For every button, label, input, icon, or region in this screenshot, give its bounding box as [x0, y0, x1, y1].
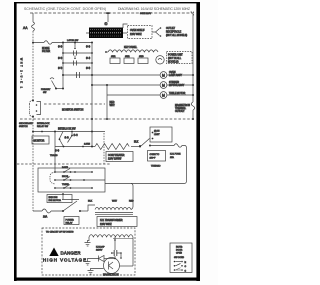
transformer core	[95, 213, 133, 215]
svg-text:SW: SW	[43, 92, 46, 94]
node hook top right	[191, 12, 194, 16]
selector bracket	[50, 172, 55, 184]
svg-text:2100V: 2100V	[96, 250, 103, 252]
wire to thermal fuse	[150, 145, 172, 147]
svg-text:BAKE: BAKE	[62, 166, 68, 169]
wire row y211	[33, 210, 63, 212]
capacitor C1 on row75	[77, 72, 80, 78]
relay coil box	[47, 195, 72, 203]
svg-text:TRANS: TRANS	[50, 154, 58, 157]
wire row y63	[63, 62, 92, 64]
svg-text:MONITOR: MONITOR	[34, 141, 45, 143]
svg-text:(1-2): (1-2)	[65, 137, 70, 139]
svg-text:PRIMARY: PRIMARY	[41, 88, 51, 91]
wire right lead into magnetron	[120, 265, 134, 267]
node 107,119	[106, 118, 108, 120]
control unit box (dashed)	[167, 52, 193, 64]
svg-text:120V 60HZ: 120V 60HZ	[100, 224, 112, 226]
wire row y146.5	[55, 146, 95, 148]
node 193,119	[192, 118, 194, 120]
svg-text:O: O	[185, 266, 187, 268]
thermal fuse F1	[44, 41, 52, 45]
magnetron thermal cutout TCO1	[175, 102, 195, 119]
contact SW2 (secondary interlock)	[58, 59, 93, 70]
wire dashed drop to main node	[32, 31, 34, 43]
svg-text:BLK: BLK	[134, 142, 139, 144]
svg-text:20A: 20A	[43, 216, 48, 219]
motor M1 stirrer	[160, 82, 193, 89]
svg-text:OVEN: OVEN	[169, 72, 176, 74]
svg-text:LIMIT: LIMIT	[154, 134, 160, 136]
node 42,131	[41, 131, 43, 133]
wire cap node down	[115, 253, 121, 258]
node tick at bus	[106, 12, 109, 14]
node 84,180	[83, 179, 85, 181]
interlock switch assembly S4	[29, 100, 40, 118]
wire secondary left lead to ground	[88, 237, 90, 243]
svg-text:(NOT ALL MODELS): (NOT ALL MODELS)	[166, 34, 187, 37]
svg-text:TIMER: TIMER	[62, 184, 69, 186]
transformer T1 primary winding	[95, 207, 131, 209]
svg-text:M: M	[162, 94, 165, 98]
svg-text:POWER UNIT: POWER UNIT	[168, 55, 183, 57]
node at 63,43	[62, 42, 64, 44]
title text	[24, 7, 191, 11]
oven control box	[38, 168, 105, 192]
wire row y131.5	[33, 131, 105, 133]
svg-text:(2-6): (2-6)	[86, 68, 91, 70]
section divider dashed	[17, 163, 110, 165]
svg-text:STIRRER: STIRRER	[169, 82, 179, 84]
legend box	[170, 243, 192, 273]
wire x33 dashed to fuse	[32, 132, 34, 212]
svg-text:WHT: WHT	[112, 201, 118, 203]
svg-text:M: M	[162, 74, 165, 78]
svg-text:120V 1350W: 120V 1350W	[108, 159, 122, 161]
hv capacitor C2	[111, 250, 122, 256]
node 115,240	[114, 239, 116, 241]
node 140,146	[139, 146, 141, 148]
node 193,85	[192, 84, 194, 86]
node 55,172	[54, 171, 56, 173]
wire primary right lead	[131, 184, 133, 210]
svg-text:2-BRN: 2-BRN	[84, 144, 91, 146]
svg-text:15A: 15A	[170, 156, 174, 159]
wire rail x75	[74, 43, 76, 59]
high voltage dashed enclosure	[42, 228, 135, 275]
svg-text:SW COND: SW COND	[174, 257, 185, 259]
node at 33,43	[32, 42, 34, 44]
wire row y95 (turntable motor feed)	[107, 94, 160, 96]
transformer T1 secondary winding	[89, 235, 133, 237]
svg-text:SECONDARY: SECONDARY	[19, 122, 33, 125]
svg-text:DOOR: DOOR	[176, 249, 183, 251]
svg-text:KEY PANEL: KEY PANEL	[124, 46, 138, 49]
wire jog x107	[106, 85, 108, 95]
wire x33 lower	[32, 117, 34, 132]
svg-text:(2-3): (2-3)	[58, 58, 63, 60]
transformer label box	[97, 217, 137, 227]
node 75,172	[74, 171, 76, 173]
svg-text:RELAY SW: RELAY SW	[37, 125, 49, 128]
key panel connector coil	[108, 50, 158, 52]
motor M2 turntable	[160, 92, 193, 99]
svg-text:DANGER: DANGER	[61, 251, 81, 256]
switch SW8	[62, 184, 71, 189]
monitor dashed line	[44, 103, 105, 105]
node 92,85	[91, 84, 93, 86]
svg-text:H.V.CAP: H.V.CAP	[96, 246, 105, 249]
primary interlock switch S2	[41, 75, 64, 94]
svg-text:RELAY: RELAY	[66, 222, 74, 225]
wire row y172	[55, 171, 92, 173]
svg-text:SCHEMATIC (ONE-TOUCH CONT. DOO: SCHEMATIC (ONE-TOUCH CONT. DOOR OPEN)	[24, 7, 106, 11]
svg-text:(2-4): (2-4)	[86, 58, 91, 60]
svg-text:120V 60HZ: 120V 60HZ	[130, 34, 142, 36]
node 92,131	[91, 131, 93, 133]
svg-text:MODELS): MODELS)	[168, 61, 179, 63]
svg-text:LAMP ASSY: LAMP ASSY	[169, 74, 182, 77]
oven thermostat box	[148, 151, 166, 162]
chassis dashed line y119	[20, 118, 193, 120]
wire right side down	[186, 148, 188, 181]
svg-text:TO CIRCUIT OF HV PARTS: TO CIRCUIT OF HV PARTS	[46, 231, 74, 234]
svg-text:MAGNETRON: MAGNETRON	[103, 274, 119, 277]
wire magnetron left to ground	[91, 269, 104, 271]
lamp L1 oven lamp	[160, 72, 193, 79]
heater element R1 zigzag	[95, 144, 129, 150]
svg-text:CUTOUT: CUTOUT	[175, 111, 185, 113]
svg-text:H.V. TRANSFORMER: H.V. TRANSFORMER	[100, 219, 123, 222]
heating element HE1 (hatched bar)	[86, 28, 127, 39]
node 55,180	[54, 179, 56, 181]
svg-text:OVEN SHELF: OVEN SHELF	[130, 30, 145, 32]
node 63.5,146	[63, 146, 65, 148]
svg-text:(2-5): (2-5)	[58, 68, 63, 70]
node 107,85	[106, 84, 108, 86]
svg-text:C: C	[185, 270, 187, 272]
wire neutral rail N (right vertical)	[192, 13, 194, 102]
heater label box	[106, 152, 133, 162]
outlet receptacle J1	[156, 27, 188, 37]
svg-text:CONV HEATER: CONV HEATER	[108, 154, 125, 157]
node 121,258	[120, 257, 122, 259]
node 72,131	[71, 131, 73, 133]
svg-text:MAGNETRON: MAGNETRON	[175, 104, 190, 107]
filament winding ticks	[113, 238, 133, 240]
interlock switch chain S6	[68, 132, 79, 143]
relay label box	[64, 217, 79, 225]
svg-text:(1-6): (1-6)	[55, 150, 60, 152]
key switch KS3	[138, 56, 148, 63]
border frame	[14, 2, 200, 281]
svg-text:THERMO: THERMO	[151, 166, 161, 168]
svg-text:DIAGRAM NO. 16-W-92 SCHEMATIC: DIAGRAM NO. 16-W-92 SCHEMATIC 120V 60HZ	[118, 7, 191, 11]
power relay contact K2a	[62, 200, 88, 213]
svg-text:(2) HI: (2) HI	[154, 131, 160, 133]
switch SW7	[62, 176, 71, 181]
ground G2	[85, 262, 91, 266]
node 63,75	[62, 74, 64, 76]
wire secondary right lead x133	[132, 237, 134, 266]
wire x33 dashed mid	[32, 43, 34, 101]
wire row y188	[55, 187, 92, 189]
svg-text:FILTER: FILTER	[42, 50, 50, 53]
node 92,188	[91, 187, 93, 189]
svg-text:EXH FAN: EXH FAN	[49, 196, 58, 199]
warning triangle	[49, 248, 58, 257]
node 55,188	[54, 187, 56, 189]
svg-text:AA: AA	[23, 26, 28, 30]
buzzer BZ1	[156, 56, 164, 64]
node 92,75	[91, 74, 93, 76]
svg-text:(2-4): (2-4)	[74, 135, 79, 137]
node 106,52	[105, 51, 107, 53]
svg-text:MONITOR SWITCH: MONITOR SWITCH	[62, 109, 84, 112]
svg-text:INTERLOCK: INTERLOCK	[37, 123, 50, 125]
wire rail x63	[62, 43, 64, 76]
svg-text:FAN MOTOR: FAN MOTOR	[49, 199, 62, 202]
svg-text:WHT 2-U-K 1: WHT 2-U-K 1	[20, 58, 23, 89]
svg-text:OPEN: OPEN	[176, 252, 182, 254]
svg-text:INTERLOCK SW: INTERLOCK SW	[58, 129, 76, 131]
wire x55 feed	[54, 132, 56, 173]
wire x107 drop	[106, 95, 108, 119]
wire heater right lead up	[123, 24, 128, 28]
wire oven feed y183.5 to right	[105, 181, 187, 184]
hv diode D1	[88, 256, 116, 262]
key panel feed	[105, 51, 108, 53]
svg-text:MOTOR ASSY: MOTOR ASSY	[169, 84, 185, 87]
svg-text:RECEPTACLE: RECEPTACLE	[166, 30, 182, 33]
node 115,258.5	[114, 258, 116, 260]
key switch KS1	[110, 56, 120, 63]
ground G1	[85, 243, 91, 247]
power relay box K2	[150, 127, 172, 142]
thermal cutout TCO2	[172, 144, 184, 148]
svg-text:N: N	[185, 262, 187, 264]
svg-text:(1): (1)	[105, 23, 108, 26]
svg-text:TABLE MOTOR: TABLE MOTOR	[169, 92, 186, 95]
wire bend to transformer	[88, 205, 95, 211]
node at 75,43	[74, 42, 76, 44]
wire to relay box	[131, 146, 140, 148]
key switch KS2	[124, 56, 134, 63]
wire row y75 (oven lamp feed)	[63, 74, 160, 76]
svg-text:(NOT IN ALL: (NOT IN ALL	[168, 57, 182, 60]
svg-text:BROIL: BROIL	[62, 176, 69, 178]
wire row y53	[63, 52, 92, 54]
node 55,131	[54, 131, 56, 133]
node 83,146	[82, 146, 84, 148]
wire secondary tap x115	[114, 237, 116, 250]
node 92,146	[91, 146, 93, 148]
wire corner to right rail	[184, 146, 187, 149]
node 92,172	[91, 171, 93, 173]
interlock switch chain S5	[55, 132, 69, 153]
node 63,193.5	[62, 193, 64, 195]
wire x92 rail lower	[91, 132, 93, 147]
svg-text:250°F: 250°F	[150, 157, 157, 159]
svg-text:SWITCH: SWITCH	[19, 126, 28, 128]
svg-text:WHT: WHT	[110, 105, 116, 107]
svg-text:M: M	[162, 84, 165, 88]
svg-text:NOTE:: NOTE:	[176, 247, 183, 249]
wire row y180	[55, 179, 105, 181]
node at 92,43	[91, 42, 93, 44]
svg-text:RED: RED	[110, 102, 115, 104]
node 92,119	[91, 118, 93, 120]
svg-text:LATCH SW: LATCH SW	[67, 39, 79, 42]
svg-text:HIGH VOLTAGE: HIGH VOLTAGE	[43, 258, 86, 263]
svg-text:(2-2): (2-2)	[86, 46, 91, 48]
wire up from relay	[62, 194, 64, 200]
fuse F2 20A	[42, 209, 51, 213]
contact SW1 (primary interlock)	[58, 49, 93, 60]
node 33,131	[32, 131, 34, 133]
svg-text:OVEN TC: OVEN TC	[150, 154, 160, 156]
node 193,95	[192, 94, 194, 96]
magnetron V1	[104, 258, 120, 274]
wire L1 bus (dashed)	[30, 12, 193, 14]
svg-text:THERMAL: THERMAL	[175, 107, 187, 110]
wire row y85 (fan motor feed)	[92, 84, 160, 86]
svg-text:POWER: POWER	[66, 220, 75, 222]
noise filter coil FL1	[32, 22, 35, 31]
monitor fuse box	[32, 136, 49, 144]
wire drop to heater	[107, 14, 109, 23]
ground G3	[88, 271, 94, 275]
svg-text:H.V. FUSE: H.V. FUSE	[170, 154, 181, 156]
wire rail x92	[91, 43, 93, 132]
svg-text:OUTLET: OUTLET	[166, 28, 176, 30]
svg-text:(2-1): (2-1)	[58, 46, 63, 48]
node 193,75	[192, 74, 194, 76]
dashed rail x104	[103, 133, 105, 164]
wire line input drop	[32, 13, 34, 22]
low voltage transformer box T2	[128, 26, 156, 39]
wire main row L (y43)	[33, 42, 92, 44]
switch SW6	[62, 166, 71, 173]
relay contact K2b	[139, 139, 151, 148]
svg-text:BLK: BLK	[88, 201, 93, 203]
